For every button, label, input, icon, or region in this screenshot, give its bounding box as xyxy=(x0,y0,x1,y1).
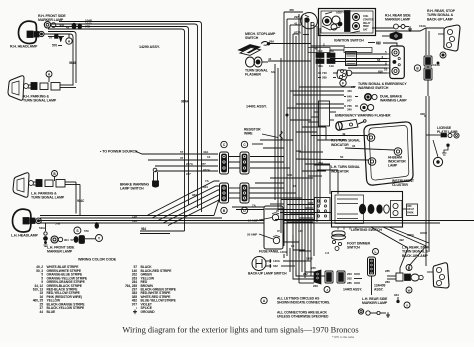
svg-text:FUSE PANEL: FUSE PANEL xyxy=(259,250,279,254)
svg-text:MARKER LAMP: MARKER LAMP xyxy=(47,250,73,254)
L.H. front side marker lamp xyxy=(51,236,85,244)
svg-text:285: 285 xyxy=(385,269,390,273)
bundle top labels xyxy=(289,8,302,35)
mech stoplamp switch xyxy=(239,32,276,55)
wire stubs into connector blocks xyxy=(201,150,240,198)
svg-text:285: 285 xyxy=(347,281,352,285)
svg-text:LAMP: LAMP xyxy=(388,163,398,167)
svg-text:977A: 977A xyxy=(203,168,211,172)
svg-text:15: 15 xyxy=(291,244,295,248)
svg-text:15A: 15A xyxy=(329,49,334,53)
svg-text:984: 984 xyxy=(192,193,197,197)
dual brake warning lamp xyxy=(344,94,377,103)
svg-text:W: W xyxy=(408,288,411,292)
ground arrow below R.H. headlamp wires xyxy=(49,35,63,42)
svg-text:904C: 904C xyxy=(77,199,85,203)
wires 904C from L.H. parking lamp down to bus xyxy=(76,182,85,216)
svg-text:TURN SIGNAL LAMP: TURN SIGNAL LAMP xyxy=(31,196,65,200)
connector L xyxy=(373,249,379,255)
svg-text:41A: 41A xyxy=(203,150,209,154)
resistor wire xyxy=(244,128,282,141)
svg-text:SWITCH: SWITCH xyxy=(245,36,259,40)
starter relay and ignition assy box xyxy=(319,9,376,36)
svg-text:LAMP SWITCH: LAMP SWITCH xyxy=(120,187,144,191)
bundle bottom elbows to rear connectors xyxy=(293,251,329,288)
wire 49 to RH indicator xyxy=(311,132,367,136)
svg-text:• TO POWER SOURCE: • TO POWER SOURCE xyxy=(100,150,138,154)
svg-text:57B: 57B xyxy=(55,222,61,226)
central wiring bundle 14401 assy xyxy=(275,12,320,283)
svg-text:44: 44 xyxy=(268,57,272,61)
svg-text:904: 904 xyxy=(64,238,69,242)
svg-text:R.H. HEADLAMP: R.H. HEADLAMP xyxy=(10,45,38,49)
emergency warning flasher wires 765 140 xyxy=(344,104,374,112)
svg-text:CLUSTER: CLUSTER xyxy=(392,183,408,187)
wire 984 bottom loop xyxy=(140,227,185,234)
connector Y xyxy=(96,235,103,242)
main rear harness verticals xyxy=(420,96,429,266)
svg-text:984A: 984A xyxy=(181,100,189,104)
R.H. turn signal indicator lamp xyxy=(367,134,375,142)
wires 977A and 977 xyxy=(155,162,218,176)
wire 34 to hi-beam xyxy=(345,144,394,150)
instrument cluster outline xyxy=(364,122,413,185)
svg-text:245: 245 xyxy=(311,266,316,270)
svg-text:14A: 14A xyxy=(329,64,334,68)
svg-text:WARNING LAMP: WARNING LAMP xyxy=(380,99,407,103)
svg-text:203: 203 xyxy=(347,272,352,276)
svg-text:50: 50 xyxy=(340,155,344,159)
backup switch wires 140A 042 xyxy=(266,259,305,268)
wires from ignition area to R.H. rear lamps xyxy=(372,24,444,55)
svg-text:BACK-UP LAMP SWITCH: BACK-UP LAMP SWITCH xyxy=(248,272,287,276)
assy labels 14405 and 13A409 xyxy=(343,284,385,292)
connector A above R.H. parking lamp xyxy=(46,71,52,82)
svg-text:348: 348 xyxy=(420,112,425,116)
svg-text:984: 984 xyxy=(141,227,146,231)
svg-text:13A: 13A xyxy=(132,214,138,218)
connector below R.H. rear marker xyxy=(382,32,402,40)
svg-text:977A: 977A xyxy=(186,162,194,166)
svg-text:934: 934 xyxy=(394,293,399,297)
L.H. turn signal indicator lamp xyxy=(368,158,376,166)
svg-text:924: 924 xyxy=(296,149,301,153)
connector B above L.H. parking lamp xyxy=(52,171,58,182)
neutral switch component left of box xyxy=(301,12,318,34)
svg-text:140A: 140A xyxy=(273,259,281,263)
svg-text:977: 977 xyxy=(201,162,206,166)
wire 50 to LH indicator xyxy=(296,155,368,160)
svg-text:49: 49 xyxy=(342,132,346,136)
svg-text:456: 456 xyxy=(289,8,294,12)
L.H. headlamp xyxy=(12,209,41,232)
svg-text:1458: 1458 xyxy=(306,257,313,261)
ground at L.H. rear marker xyxy=(386,312,390,317)
svg-text:264: 264 xyxy=(318,161,323,165)
svg-text:140A: 140A xyxy=(280,250,288,254)
svg-text:SWITCH: SWITCH xyxy=(347,245,360,249)
L.H. rear stop lamp body xyxy=(427,263,449,288)
back-up lamp switch xyxy=(252,257,266,271)
svg-text:28A: 28A xyxy=(269,40,275,44)
svg-text:297: 297 xyxy=(294,15,299,19)
svg-text:692: 692 xyxy=(376,42,381,46)
ground at R.H. rear marker xyxy=(408,26,412,31)
svg-text:EMERGENCY WARNING FLASHER: EMERGENCY WARNING FLASHER xyxy=(335,114,391,118)
svg-text:140: 140 xyxy=(298,229,303,233)
svg-text:398A: 398A xyxy=(407,233,415,237)
svg-text:977: 977 xyxy=(186,172,191,176)
R.H. rear side marker lamp xyxy=(385,14,411,29)
wires from bundle to turn signal switch xyxy=(330,50,388,73)
R.H. rear stop turn signal and backup lamp xyxy=(427,9,460,51)
flasher wire 44 xyxy=(268,57,311,74)
rear connectors row J xyxy=(314,270,362,293)
diagonal feeder wires from L.H. bus to connector blocks xyxy=(147,181,220,226)
svg-text:BLUE: BLUE xyxy=(47,310,56,314)
svg-text:IGNITION SWITCH: IGNITION SWITCH xyxy=(334,39,364,43)
svg-text:34: 34 xyxy=(352,144,356,148)
connector block D lower-right xyxy=(240,183,249,214)
svg-text:740: 740 xyxy=(322,71,327,75)
svg-text:14401 ASSY.: 14401 ASSY. xyxy=(246,105,267,109)
svg-text:042: 042 xyxy=(273,264,278,268)
svg-text:L: L xyxy=(375,250,377,254)
svg-text:BACK-UP LAMP: BACK-UP LAMP xyxy=(427,17,454,21)
svg-text:L.H. HEADLAMP: L.H. HEADLAMP xyxy=(11,234,39,238)
svg-text:14 AMP: 14 AMP xyxy=(248,219,258,223)
svg-text:F: F xyxy=(342,81,344,85)
svg-text:Wiring diagram for the exterio: Wiring diagram for the exterior lights a… xyxy=(122,326,358,335)
wire 692 to switch top xyxy=(376,42,397,47)
svg-text:9848: 9848 xyxy=(69,61,76,65)
svg-text:30A: 30A xyxy=(318,64,323,68)
L.H. front side marker feed chain xyxy=(44,223,48,247)
svg-text:104A: 104A xyxy=(419,24,427,28)
hi-beam indicator lamp xyxy=(394,148,402,156)
lighting switch assembly box xyxy=(332,192,403,230)
bundle feeds into lighting switch connector xyxy=(275,200,315,220)
svg-text:PARK: PARK xyxy=(407,211,414,214)
svg-text:V: V xyxy=(406,303,408,307)
svg-text:INDICATOR: INDICATOR xyxy=(331,143,349,147)
off-park-hdlp legend box xyxy=(403,204,418,216)
svg-text:R.H. TURN SIGNAL: R.H. TURN SIGNAL xyxy=(331,139,360,143)
wire labels 104B 104A 57D xyxy=(85,18,93,28)
svg-text:41: 41 xyxy=(294,22,298,26)
turn signal and emergency warning switch xyxy=(387,46,404,79)
wires under ignition box xyxy=(308,41,381,53)
L.H. parking and turn signal lamp xyxy=(13,173,80,198)
additional harness cross wires xyxy=(252,120,345,248)
foot dimmer switch xyxy=(332,231,346,251)
svg-text:ASSY.: ASSY. xyxy=(374,287,384,291)
wires joining rear connectors xyxy=(280,240,314,276)
svg-text:64: 64 xyxy=(377,58,381,62)
fuse panel xyxy=(247,206,283,249)
svg-text:TURN SIGNAL LAMP: TURN SIGNAL LAMP xyxy=(23,99,57,103)
svg-text:14405 ASSY.: 14405 ASSY. xyxy=(343,288,362,292)
emergency warning flasher body xyxy=(336,120,366,131)
turn signal flasher xyxy=(245,57,269,77)
svg-text:977: 977 xyxy=(347,99,352,103)
svg-text:650: 650 xyxy=(378,69,383,73)
connector block C right xyxy=(240,141,249,174)
bundle-to-flasher wire labels xyxy=(347,85,356,93)
wire 57 with label 570 xyxy=(48,37,64,48)
svg-text:283: 283 xyxy=(385,280,390,284)
connector shell right of bundle xyxy=(319,101,330,126)
wires from harness into L.H. rear lamp connector xyxy=(372,246,427,295)
connector 14489 block xyxy=(368,257,376,276)
stubs into right connector shell xyxy=(308,112,336,122)
connectors 15A 14A xyxy=(316,49,335,68)
svg-text:SHOWN INDICATE CONNECTORS.: SHOWN INDICATE CONNECTORS. xyxy=(277,301,330,305)
cross wires center field xyxy=(229,87,355,276)
black connectors at R.H. front marker xyxy=(72,23,82,30)
svg-text:1-5: 1-5 xyxy=(325,251,329,255)
steering column plug with wires 740 285 xyxy=(318,70,352,87)
svg-text:44: 44 xyxy=(40,310,44,314)
wire 934 and ground stub xyxy=(394,293,399,303)
svg-text:WIRE: WIRE xyxy=(244,132,253,136)
L.H. rear lamp connectors middle cluster xyxy=(385,265,423,309)
svg-text:310: 310 xyxy=(318,49,323,53)
svg-text:WIRING COLOR CODE: WIRING COLOR CODE xyxy=(78,258,117,262)
connector S xyxy=(74,227,81,234)
wiring color code table xyxy=(33,258,177,314)
connector stack 104A right side xyxy=(414,52,446,96)
svg-text:L.H. TURN SIGNAL: L.H. TURN SIGNAL xyxy=(331,165,360,169)
svg-text:12A: 12A xyxy=(132,219,138,223)
svg-text:392: 392 xyxy=(399,238,404,242)
lighting switch connector block xyxy=(315,198,331,221)
stoplamp switch wire 28A xyxy=(267,40,311,44)
steering column connector block xyxy=(346,52,357,66)
svg-text:57: 57 xyxy=(180,150,184,154)
bundle top elbows xyxy=(284,12,303,34)
stair-step harness elbows near cluster xyxy=(299,152,330,176)
L.H. rear side marker lamp xyxy=(358,297,388,315)
wire 37 xyxy=(148,156,218,160)
R.H. front side marker lamp xyxy=(38,14,70,30)
wires into fuse panel xyxy=(232,204,264,210)
wire bus 14290 assy horizontal runs xyxy=(48,22,202,232)
brake warning lamp switch xyxy=(153,168,159,187)
R.H. headlamp xyxy=(18,21,48,43)
svg-text:UNLESS OTHERWISE SPECIFIED: UNLESS OTHERWISE SPECIFIED xyxy=(277,315,329,319)
svg-text:WARNING SWITCH: WARNING SWITCH xyxy=(358,86,389,90)
svg-text:285: 285 xyxy=(322,76,327,80)
svg-text:GROUND: GROUND xyxy=(141,310,156,314)
notes about connectors xyxy=(261,297,330,319)
L.H. side bus wires going right xyxy=(39,213,474,231)
svg-text:242: 242 xyxy=(303,272,308,276)
svg-text:57: 57 xyxy=(71,238,75,242)
svg-text:10: 10 xyxy=(384,68,388,72)
svg-text:20 AMP: 20 AMP xyxy=(247,233,257,237)
svg-text:*1971 is the same: *1971 is the same xyxy=(332,335,355,339)
svg-text:570: 570 xyxy=(52,44,57,48)
license plate lamp xyxy=(426,126,459,167)
svg-text:MARKER LAMP: MARKER LAMP xyxy=(385,18,411,22)
svg-text:263: 263 xyxy=(313,284,318,288)
svg-text:37: 37 xyxy=(180,156,184,160)
splice dot on bundle xyxy=(286,114,288,116)
to power source label and wire 57 xyxy=(100,150,218,155)
svg-text:440: 440 xyxy=(347,89,352,93)
svg-text:FLASHER: FLASHER xyxy=(245,73,261,77)
svg-text:53/A: 53/A xyxy=(39,226,46,230)
black connector above Y xyxy=(95,222,99,229)
caption xyxy=(122,326,358,339)
svg-text:MARKER LAMP: MARKER LAMP xyxy=(362,301,388,305)
svg-text:10: 10 xyxy=(207,155,211,159)
wire from marker chain to Y xyxy=(84,229,95,239)
svg-text:16: 16 xyxy=(293,184,297,188)
svg-text:BAT: BAT xyxy=(363,29,368,32)
splice connector circle near headlamp xyxy=(66,34,72,44)
svg-text:977A: 977A xyxy=(294,31,302,35)
R.H. parking and turn signal lamp xyxy=(8,76,76,101)
wires from lighting switch to rear harness xyxy=(371,227,429,248)
svg-text:14290 ASSY.: 14290 ASSY. xyxy=(139,45,160,49)
svg-text:340: 340 xyxy=(347,108,352,112)
svg-text:BACK-UP LAMP: BACK-UP LAMP xyxy=(402,254,429,258)
svg-text:ASSY 4: ASSY 4 xyxy=(336,11,345,15)
connector block B lower-left xyxy=(220,183,229,214)
connector block C left xyxy=(220,141,229,174)
svg-text:34A: 34A xyxy=(287,173,293,177)
svg-text:202: 202 xyxy=(347,277,352,281)
